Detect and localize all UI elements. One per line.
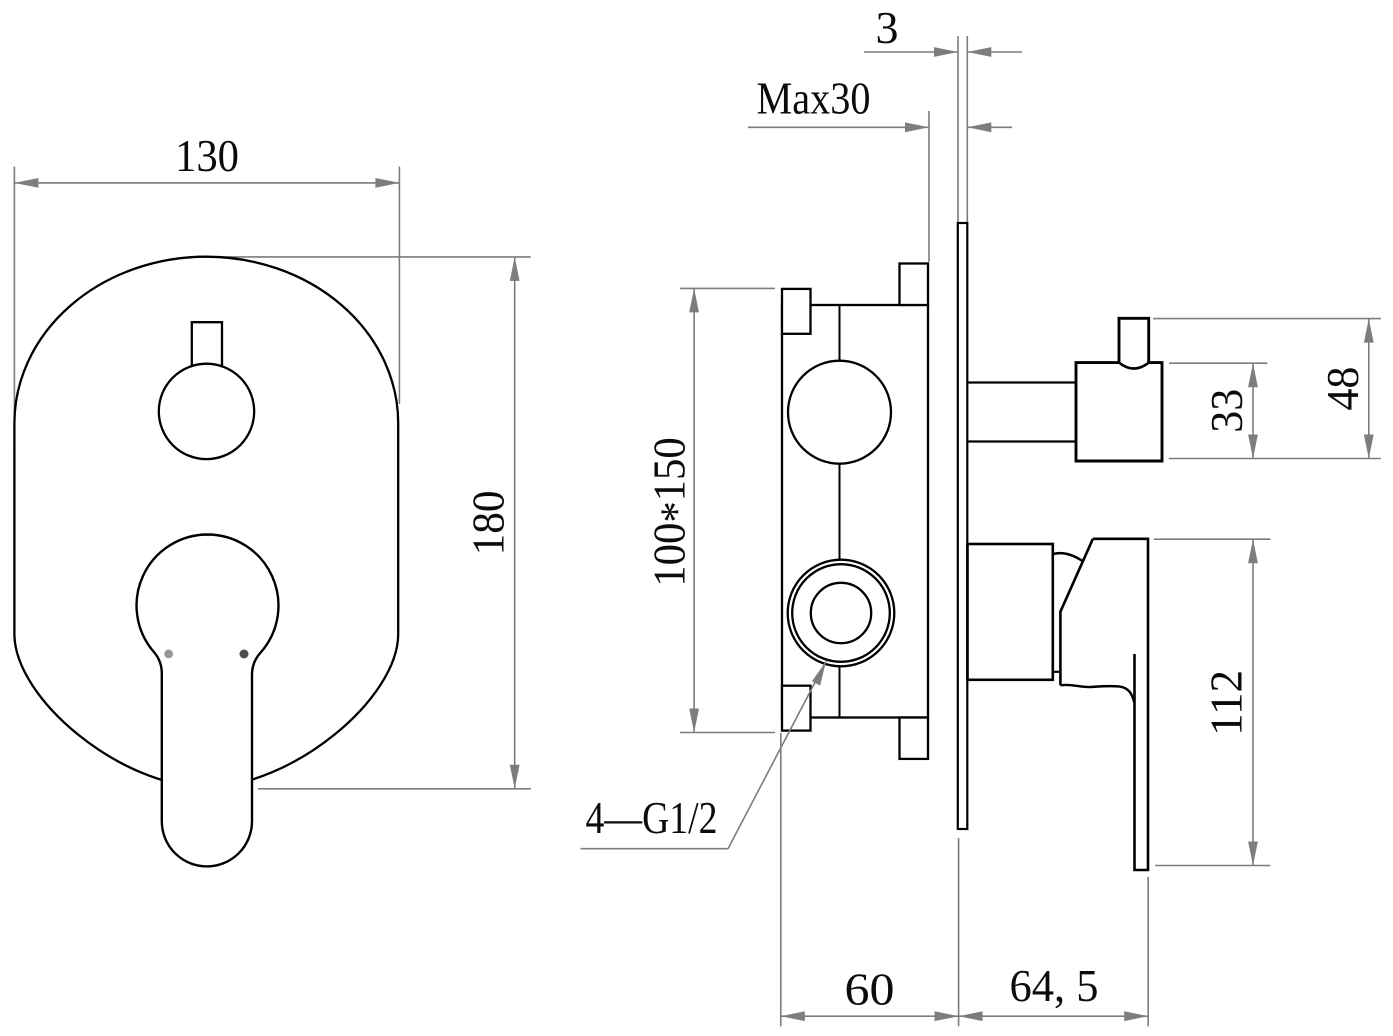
temperature handle knob <box>1119 318 1149 362</box>
dimension 48 text <box>1317 367 1368 411</box>
dimension 3 arrow right <box>967 47 991 57</box>
dimension 112 text <box>1201 670 1252 736</box>
temperature handle knob bottom arc <box>1119 363 1149 369</box>
svg-text:48: 48 <box>1317 367 1368 411</box>
dimension 180 arrow up <box>510 257 520 281</box>
svg-text:3: 3 <box>876 2 899 53</box>
dimension 130 extension line right <box>398 167 400 405</box>
wall plate side view <box>958 223 968 829</box>
svg-text:112: 112 <box>1201 670 1252 736</box>
dimension 130 line <box>14 182 399 184</box>
dimension 64.5 arrow right <box>1124 1011 1148 1021</box>
dimension 33 extension line top <box>1169 362 1267 364</box>
dimension 33 arrow down <box>1248 435 1258 459</box>
dimension 100x150 arrow down <box>689 709 699 733</box>
temperature handle stem bottom line <box>967 440 1076 442</box>
dimension 64.5 arrow left <box>959 1011 983 1021</box>
dimension 180 line <box>514 257 516 789</box>
front view diverter knob circle <box>159 364 254 459</box>
dimension 48 extension line top <box>1153 318 1381 320</box>
dimension 60/64.5 shared extension line middle <box>958 838 960 1026</box>
svg-text:60: 60 <box>845 964 895 1015</box>
dimension Max30 arrow at plate <box>967 122 991 132</box>
leader 4-G1/2 slanted line <box>728 661 826 849</box>
dimension 180 arrow down <box>510 765 520 789</box>
svg-text:130: 130 <box>175 130 239 181</box>
temperature handle body <box>1076 363 1162 461</box>
dimension 100x150 extension line bottom <box>680 732 775 734</box>
front view lever dot right <box>240 650 249 659</box>
mounting lug bottom-right <box>900 718 929 759</box>
mounting lug top-right <box>900 264 929 306</box>
valve body centerline <box>839 305 841 718</box>
dimension 112 arrow up <box>1248 539 1258 563</box>
dimension 33 text <box>1201 389 1252 433</box>
front view diverter knob stem rectangle <box>192 322 222 366</box>
lever handle underside wavy edge <box>1060 685 1134 703</box>
dimension 112 arrow down <box>1248 842 1258 866</box>
dimension Max30 line left part <box>748 126 929 128</box>
valve body rectangle <box>782 305 928 718</box>
dimension 33 arrow up <box>1248 363 1258 387</box>
dimension 100x150 line <box>693 288 695 732</box>
dimension Max30 arrow at extension <box>905 122 929 132</box>
dimension 3 line left part <box>864 51 958 53</box>
front view lever handle outline <box>137 535 279 867</box>
dimension Max30 line right part <box>967 126 1012 128</box>
lever base cylinder side view <box>968 544 1053 680</box>
dimension 3 arrow left <box>934 47 958 57</box>
dimension 130 arrow right <box>375 178 399 188</box>
dimension 33/48 shared extension line bottom <box>1169 458 1381 460</box>
dimension 48 arrow up <box>1364 319 1374 343</box>
dimension 60 extension line left <box>780 733 782 1026</box>
dimension 180 text <box>462 490 513 555</box>
dimension 100x150 extension line top <box>680 287 775 289</box>
dimension 180 extension line bottom <box>258 788 531 790</box>
leader 4-G1/2 underline <box>581 848 729 850</box>
dimension 3 extension line left <box>957 36 959 223</box>
dimension 130 arrow left <box>14 178 38 188</box>
dimension 112 extension line top <box>1154 538 1271 540</box>
dimension 130 extension line left <box>13 167 15 413</box>
dimension Max30 extension line <box>928 111 930 262</box>
svg-text:180: 180 <box>462 490 513 555</box>
dimension 3 extension line right <box>966 36 968 223</box>
dimension 100x150 arrow up <box>689 288 699 312</box>
dimension 3 line right part <box>967 51 1022 53</box>
dimension 33 line <box>1252 363 1254 458</box>
svg-text:Max30: Max30 <box>757 73 871 124</box>
side view lower port ring circle <box>792 564 890 662</box>
lever base step <box>1053 671 1061 673</box>
temperature handle stem top line <box>967 381 1076 383</box>
dimension 60 arrow left <box>781 1011 805 1021</box>
svg-text:100*150: 100*150 <box>646 437 702 587</box>
side view upper valve circle <box>788 361 891 464</box>
port lug top-left <box>782 289 811 334</box>
dimension 48 arrow down <box>1364 435 1374 459</box>
dimension 100x150 text <box>646 437 702 587</box>
dimension 64.5 extension line right <box>1147 877 1149 1026</box>
lever handle slanted front edge <box>1060 539 1093 686</box>
lever ball joint arc <box>1053 553 1083 562</box>
side view lower port outer circle <box>788 560 895 667</box>
lever handle upper edge and blade side view <box>1093 539 1148 870</box>
svg-text:4—G1/2: 4—G1/2 <box>586 792 718 843</box>
dimension 48 line <box>1368 319 1370 459</box>
dimension 112 line <box>1252 539 1254 865</box>
dimension 64.5 line <box>959 1015 1149 1017</box>
dimension 180 extension line top <box>212 256 531 258</box>
side view lower port inner circle <box>811 583 871 643</box>
svg-text:33: 33 <box>1201 389 1252 433</box>
dimension 60 line <box>781 1015 959 1017</box>
dimension 60 arrow right <box>935 1011 959 1021</box>
front view lever dot left <box>164 650 173 659</box>
leader 4-G1/2 arrow <box>812 661 826 685</box>
svg-text:64, 5: 64, 5 <box>1010 960 1099 1011</box>
front plate oval <box>14 257 398 787</box>
dimension 112 extension line bottom <box>1155 865 1270 867</box>
port lug bottom-left <box>782 686 811 731</box>
